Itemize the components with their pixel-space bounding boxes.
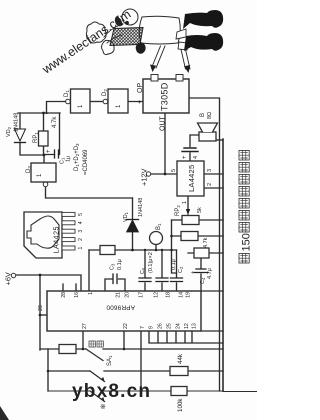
svg-text:D1: D1 (64, 90, 70, 97)
IC APR9600 (47, 291, 201, 331)
capacitor C3 (113, 274, 117, 284)
diode VD1 (127, 220, 139, 232)
svg-text:D1+D2+D3: D1+D2+D3 (74, 143, 80, 171)
svg-text:5k: 5k (197, 207, 203, 213)
wire main bottom bus (222, 139, 224, 391)
svg-text:4.7k: 4.7k (203, 237, 209, 248)
wire LA4425 pin5 +12V (151, 173, 177, 175)
wire speaker to bus (216, 139, 223, 141)
wire +6V drop (16, 275, 81, 291)
svg-text:26: 26 (158, 323, 164, 329)
svg-text:8Ω: 8Ω (207, 112, 213, 119)
svg-text:+: + (182, 155, 188, 159)
resistor R row1 (59, 345, 76, 354)
wire B1 lead (155, 245, 157, 251)
wire row2 vertical (48, 370, 223, 372)
IC package inset LA4425 (24, 212, 62, 258)
svg-text:17: 17 (139, 292, 145, 298)
svg-text:LA4425: LA4425 (52, 226, 61, 253)
svg-text:VD2: VD2 (6, 126, 12, 137)
wire D3 output (46, 187, 133, 198)
wire cap to speaker (190, 135, 199, 147)
svg-text:VD1: VD1 (123, 211, 129, 222)
pin numbers right edge (61, 292, 192, 298)
svg-text:7: 7 (140, 326, 146, 329)
speaker B (199, 132, 216, 141)
wire bias row (172, 220, 177, 273)
svg-text:+: + (46, 149, 52, 153)
svg-text:12: 12 (184, 323, 190, 329)
diode VD2 (15, 129, 26, 141)
inverter D3 (31, 163, 56, 182)
svg-text:14: 14 (179, 292, 185, 298)
pin numbers left edge (82, 323, 198, 329)
svg-text:T305D: T305D (160, 82, 170, 111)
wire RP2 top/bottom (172, 219, 224, 221)
terminal +12V (146, 172, 150, 176)
svg-text:ybx8.cn: ybx8.cn (72, 381, 151, 402)
svg-text:0.1μ: 0.1μ (171, 259, 177, 270)
svg-text:3: 3 (78, 230, 84, 233)
wire comb rail (149, 331, 223, 343)
capacitor C1 (55, 150, 59, 158)
wire row3 vertical (48, 390, 257, 393)
wire VD2 leads (20, 113, 44, 155)
svg-text:1: 1 (182, 201, 188, 204)
svg-text:9: 9 (149, 326, 155, 329)
wire VD1 branch (132, 198, 134, 250)
wire LA4425 pin3 (204, 173, 223, 175)
svg-text:20: 20 (125, 292, 131, 298)
svg-text:+12V: +12V (140, 168, 149, 186)
terminal +6V (11, 273, 15, 277)
wire RP1 leads (43, 113, 45, 155)
svg-text:※: ※ (100, 404, 106, 411)
svg-text:APR9600: APR9600 (106, 304, 135, 311)
module T305D (143, 79, 189, 113)
svg-text:+: + (137, 100, 144, 104)
svg-text:23: 23 (38, 305, 44, 311)
wire C4 link (200, 258, 202, 291)
boot left (184, 33, 223, 51)
wire ground return under APR (201, 291, 223, 331)
svg-text:C5: C5 (140, 267, 146, 274)
capacitor C2 (171, 278, 183, 282)
head (122, 9, 138, 25)
wire pin27 stub (82, 331, 84, 349)
wire D2 to T305D (128, 101, 143, 103)
svg-text:C4: C4 (200, 277, 206, 284)
boot right (183, 10, 223, 29)
corner mark (0, 406, 9, 420)
svg-text:1: 1 (88, 292, 94, 295)
wire row1 vertical (40, 348, 223, 350)
svg-text:28: 28 (61, 292, 67, 298)
svg-text:5: 5 (78, 213, 84, 216)
person advertiser (86, 9, 180, 55)
rotated landscape schematic: landscape canvas 420x257 rotated 90deg CCW (4, 9, 258, 412)
svg-text:25: 25 (167, 323, 173, 329)
svg-text:150: 150 (241, 233, 253, 251)
switch SA1 blade (86, 349, 103, 361)
capacitor C5b (156, 278, 168, 282)
wire pin22 stub (123, 331, 125, 349)
wire pin1 to rail (88, 250, 90, 290)
svg-text:27: 27 (82, 323, 88, 329)
svg-text:5: 5 (171, 169, 177, 172)
terminal squares on T305D (151, 75, 158, 82)
svg-text:OP: OP (137, 83, 144, 93)
inverter D1 (71, 89, 91, 113)
svg-text:D3: D3 (26, 166, 32, 173)
svg-text:16: 16 (74, 292, 80, 298)
wire row join (47, 349, 49, 391)
dark hand blob (136, 42, 146, 53)
switch SA3 blade (90, 391, 105, 402)
legs white connectors (176, 29, 188, 50)
wire 4.7k resistor leads (188, 252, 223, 254)
capacitor C5b wires (161, 250, 163, 290)
svg-text:13: 13 (192, 323, 198, 329)
svg-text:RP1: RP1 (33, 132, 39, 143)
wire pin28/16 stubs (63, 284, 76, 290)
wire pin4 to cap (189, 153, 191, 161)
svg-text:=CD4069: =CD4069 (83, 149, 89, 175)
arm lines (104, 25, 122, 43)
svg-text:4: 4 (193, 156, 199, 159)
svg-text:3: 3 (207, 169, 213, 172)
svg-text:(0.1)μ×2: (0.1)μ×2 (148, 252, 154, 273)
svg-text:1N4148: 1N4148 (14, 113, 20, 132)
resistor R8 (181, 232, 198, 241)
svg-text:0.1μ: 0.1μ (117, 259, 123, 270)
hand raised (86, 22, 106, 43)
wire R8 resistor leads (172, 235, 224, 237)
svg-text:100k: 100k (177, 398, 184, 412)
svg-text:+: + (190, 271, 196, 274)
capacitor C4 (194, 269, 208, 273)
svg-text:LA4425: LA4425 (187, 165, 196, 192)
capacitor C5a wires (144, 250, 146, 290)
wire mic rail (89, 249, 177, 251)
svg-text:1: 1 (78, 246, 84, 249)
svg-text:D2: D2 (102, 89, 108, 96)
svg-text:1μ: 1μ (66, 156, 72, 162)
svg-text:C3: C3 (110, 263, 116, 270)
capacitor output electrolytic (182, 148, 198, 152)
wire node B line (18, 112, 60, 114)
inverter D2 (108, 89, 128, 113)
IC amp LA4425 (177, 161, 204, 196)
svg-text:22: 22 (123, 323, 129, 329)
capacitor C2 wires (176, 250, 178, 290)
svg-text:24: 24 (176, 323, 182, 329)
resistor RP1 (39, 131, 49, 146)
svg-text:19: 19 (186, 292, 192, 298)
wire LA4425 pin2 (204, 187, 223, 189)
svg-text:SA1: SA1 (107, 355, 113, 366)
wire D1 output to node B (47, 102, 66, 114)
resistor 4.7k (194, 248, 209, 258)
title caption (239, 150, 253, 263)
svg-text:1N4148: 1N4148 (138, 198, 144, 217)
resistor 44k (170, 367, 188, 376)
wire pin23 stub (40, 314, 48, 316)
potentiometer RP2 (182, 216, 199, 225)
microphone B1 (150, 232, 163, 245)
resistor 100k (171, 387, 187, 396)
wire pin7 line (140, 331, 142, 395)
svg-text:44k: 44k (177, 353, 184, 364)
torso (139, 16, 180, 44)
label 重放 (89, 341, 95, 347)
svg-text:4.7k: 4.7k (52, 116, 58, 128)
drum crosshatched (110, 28, 143, 46)
wire inner bus (189, 98, 220, 391)
wire OUT line to T305D (164, 113, 166, 174)
svg-text:OUT: OUT (160, 116, 167, 132)
second hand (102, 40, 115, 54)
wire +6V rail (39, 275, 41, 350)
sound arrows (152, 45, 191, 69)
svg-text:B1: B1 (156, 223, 162, 230)
wire C1 leads (44, 113, 60, 155)
svg-text:+6V: +6V (4, 272, 13, 285)
capacitor C3 bridge wires (105, 279, 125, 290)
wire LA4425 pin1 wiper (187, 196, 189, 209)
resistor R mic top (100, 246, 115, 255)
svg-text:RP2: RP2 (175, 205, 181, 216)
svg-text:4.7μ: 4.7μ (207, 268, 213, 279)
svg-text:4: 4 (78, 221, 84, 224)
svg-text:18: 18 (166, 292, 172, 298)
svg-text:21: 21 (116, 292, 122, 298)
capacitor C5a (139, 278, 151, 282)
svg-text:2: 2 (207, 183, 213, 186)
svg-text:12: 12 (154, 292, 160, 298)
wire D3 input (43, 155, 45, 163)
wire D1-D2 link (90, 101, 103, 103)
svg-text:C2: C2 (178, 266, 184, 273)
svg-text:2: 2 (78, 238, 84, 241)
svg-text:B: B (200, 113, 206, 117)
switch SA2 blade (90, 371, 105, 382)
